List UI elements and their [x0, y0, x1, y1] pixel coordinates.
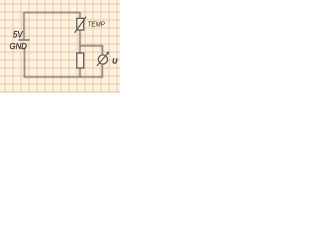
5V supply terminal bar — [19, 39, 29, 41]
thermistor R1 body — [77, 18, 84, 30]
wire thermistor to resistor — [79, 30, 81, 53]
svg-text:U: U — [112, 56, 118, 65]
wire top rail from 5V to thermistor — [24, 13, 80, 40]
resistor R2 body — [77, 53, 84, 68]
wire bottom rail — [25, 76, 103, 78]
wire voltmeter to bottom rail — [101, 64, 103, 77]
wire GND down to bottom rail — [24, 48, 26, 77]
wire resistor to bottom rail — [79, 68, 81, 77]
svg-text:TEMP: TEMP — [88, 19, 106, 28]
voltmeter U body — [98, 55, 107, 64]
voltmeter arrowhead — [106, 52, 109, 55]
voltmeter arrow — [97, 53, 108, 66]
svg-text:5V: 5V — [13, 30, 24, 40]
grid of graph paper — [0, 0, 120, 93]
svg-text:GND: GND — [10, 42, 27, 51]
thermistor R1 diagonal stroke — [75, 17, 86, 32]
wire branch node to voltmeter — [80, 46, 102, 54]
